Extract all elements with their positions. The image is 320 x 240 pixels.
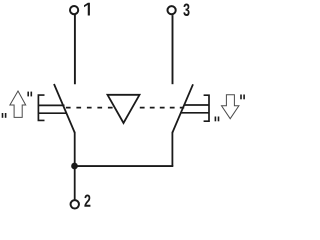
bottom rail wire to junction <box>75 165 174 167</box>
terminal 2 circle <box>71 200 79 208</box>
wire from terminal 1 down to left fixed contact <box>74 15 76 84</box>
terminal 1 circle <box>70 6 78 14</box>
quote mark right of down-arrow <box>240 95 245 100</box>
coupling line right upper <box>184 104 209 106</box>
junction dot <box>71 163 78 170</box>
coupling line right lower <box>180 112 209 114</box>
quote mark left of down-arrow <box>215 117 220 122</box>
quote mark right of up-arrow <box>27 92 32 97</box>
actuator bracket left <box>38 95 44 120</box>
label 1 <box>84 3 90 16</box>
wire from terminal 3 down to right fixed contact <box>172 15 174 84</box>
actuator bracket right <box>204 95 209 121</box>
actuation arrow down (right) <box>222 95 239 119</box>
contact blade left (movable contact) <box>54 84 75 133</box>
terminal 3 circle <box>168 6 176 14</box>
dashed mechanical linkage line right section <box>140 107 184 109</box>
contact blade right (movable contact) <box>172 84 193 132</box>
wire from right blade down to bottom rail <box>171 132 173 166</box>
momentary action triangle symbol <box>108 95 140 123</box>
quote mark left of up-arrow <box>2 113 7 118</box>
label 3 <box>183 4 189 17</box>
wire from left blade down to junction <box>74 132 76 166</box>
label 2 <box>84 195 90 207</box>
wire from junction down to terminal 2 <box>74 166 76 200</box>
actuation arrow up (left) <box>10 91 26 117</box>
coupling line left upper <box>38 104 64 106</box>
coupling line left lower <box>38 112 66 114</box>
dashed mechanical linkage line left section <box>66 107 114 109</box>
